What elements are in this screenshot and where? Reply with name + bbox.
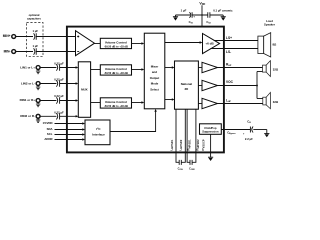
- wire CB to ground: [253, 129, 266, 131]
- svg-text:32Ω: 32Ω: [273, 100, 279, 104]
- op-amp mic preamp: [76, 31, 95, 56]
- svg-text:capacitors: capacitors: [27, 17, 41, 21]
- capacitor COSL: [178, 160, 183, 171]
- ground right of CS2: [221, 15, 226, 21]
- svg-text:National: National: [181, 82, 193, 86]
- svg-text:1 µF: 1 µF: [32, 29, 38, 33]
- svg-text:2.2 µF: 2.2 µF: [245, 137, 253, 141]
- wire National 3D to RHP amp: [198, 67, 202, 69]
- svg-text:+6 dB: +6 dB: [205, 42, 214, 46]
- svg-text:VOC: VOC: [226, 80, 234, 84]
- capacitor 0.22uF RIN2: [54, 111, 64, 120]
- capacitor CB: [243, 120, 253, 142]
- block Volume Control 2: [100, 65, 131, 75]
- wire MIN- to amp: [36, 51, 75, 53]
- svg-text:0.22 µF: 0.22 µF: [54, 94, 64, 98]
- wire National 3D to LHP amp: [198, 103, 202, 105]
- junction VOC branch: [256, 85, 258, 87]
- speaker HP left 32 ohm: [263, 92, 279, 108]
- capacitor 1uF upper optional: [32, 29, 38, 40]
- wire VC1 to mixer: [132, 43, 144, 45]
- svg-text:0.22 µF: 0.22 µF: [54, 62, 64, 66]
- wire RIN1 to MUX: [60, 100, 77, 102]
- wire mixer to National 3D lower: [165, 99, 174, 101]
- svg-text:I2CVDD: I2CVDD: [43, 121, 53, 125]
- wire MIN-: [16, 51, 33, 53]
- svg-text:LS+: LS+: [226, 36, 232, 40]
- ground under RIN1 pin: [36, 102, 40, 106]
- wire VOC branch vertical: [256, 72, 258, 99]
- wire VC3 to mixer: [132, 102, 144, 104]
- svg-text:and: and: [152, 70, 157, 74]
- node VDD: [176, 1, 224, 26]
- capacitor COSR: [189, 160, 195, 171]
- wire CBYPASS: [221, 129, 250, 131]
- svg-text:RIN1 or R+: RIN1 or R+: [20, 98, 36, 102]
- op-amp VOC: [202, 80, 218, 90]
- svg-text:+: +: [193, 15, 195, 19]
- block Volume Control 1: [100, 38, 131, 48]
- block Click/Pop Suppression: [200, 124, 222, 135]
- pin MIN+: [3, 34, 16, 38]
- svg-text:MIN+: MIN+: [3, 34, 11, 38]
- svg-text:Select: Select: [150, 88, 159, 92]
- svg-text:MIN-: MIN-: [4, 49, 11, 53]
- wire I2C to mixer: [110, 110, 156, 131]
- wire National 3D to VOC amp: [198, 85, 202, 87]
- svg-text:Output: Output: [150, 76, 160, 80]
- optional capacitors note: [27, 13, 44, 56]
- ground under LIN1 pin: [36, 69, 40, 73]
- svg-text:3D: 3D: [185, 87, 189, 91]
- svg-text:Mixer: Mixer: [151, 64, 159, 68]
- pin RIN2: [20, 114, 40, 118]
- svg-text:Speaker: Speaker: [264, 23, 276, 27]
- wire amp to VC1: [94, 43, 100, 45]
- wire ADDR: [55, 139, 84, 141]
- wire MUX to VC3: [91, 102, 101, 104]
- svg-text:-59.50 dB to +18 dB: -59.50 dB to +18 dB: [104, 71, 128, 75]
- svg-text:ADDR: ADDR: [44, 137, 52, 141]
- svg-text:1 µF: 1 µF: [181, 9, 187, 13]
- block Volume Control 3: [100, 98, 131, 108]
- wire LS-: [210, 48, 258, 50]
- Loud Speaker: [258, 19, 277, 57]
- pin LHPSD1: [176, 109, 179, 162]
- block MUX: [78, 62, 90, 118]
- wire LIN1: [40, 67, 56, 69]
- capacitor 0.22uF LIN1: [54, 62, 64, 71]
- svg-text:1 µF: 1 µF: [32, 44, 38, 48]
- block I2C Interface: [85, 120, 110, 145]
- wire VDD vertical: [201, 5, 203, 26]
- op-amp +6dB loudspeaker driver: [203, 34, 220, 54]
- wire RIN1: [40, 100, 56, 102]
- capacitor 1uF lower optional: [32, 44, 38, 55]
- wire MIN+: [16, 36, 33, 38]
- capacitor CS2: [206, 9, 233, 25]
- block National 3D: [175, 61, 199, 109]
- pin RHPSD2: [192, 109, 196, 162]
- op-amp LHP: [202, 98, 218, 108]
- wire MIN+ to amp: [36, 36, 75, 38]
- wire supply rail: [176, 14, 224, 16]
- capacitor 0.22uF LIN2: [54, 78, 64, 87]
- svg-text:RIN2 or R-: RIN2 or R-: [20, 114, 35, 118]
- svg-text:0.22 µF: 0.22 µF: [54, 78, 64, 82]
- pin LHPSD2: [181, 109, 185, 162]
- ground under LIN2 pin: [36, 85, 40, 89]
- op-amp RHP: [202, 62, 218, 72]
- wire RIN2 to MUX: [60, 115, 77, 117]
- svg-text:LIN1 or L+: LIN1 or L+: [20, 65, 35, 69]
- svg-text:-59.50 dB to +18 dB: -59.50 dB to +18 dB: [104, 104, 128, 108]
- pin RHPSD1: [187, 109, 190, 162]
- svg-text:Interface: Interface: [92, 132, 105, 136]
- IC outer box U1: [67, 27, 224, 153]
- wire RIN2: [40, 115, 56, 117]
- svg-text:0.22 µF: 0.22 µF: [54, 111, 64, 115]
- ground CB: [264, 130, 269, 138]
- svg-text:MUX: MUX: [81, 88, 87, 92]
- pin RIN1: [20, 98, 40, 103]
- wire LHP out: [218, 103, 263, 105]
- svg-text:Suppression: Suppression: [202, 130, 219, 134]
- pin LIN1: [20, 65, 40, 69]
- junction VDD rail: [201, 14, 203, 16]
- wire MUX to VC2: [91, 69, 101, 71]
- svg-text:SDA: SDA: [47, 127, 53, 131]
- wire LIN2: [40, 83, 56, 85]
- ground under RIN2 pin: [36, 118, 40, 122]
- wire mixer to +6dB amp: [165, 42, 201, 44]
- svg-text:Volume Control: Volume Control: [105, 100, 127, 104]
- svg-text:Volume Control: Volume Control: [105, 40, 127, 44]
- wire VC2 to mixer: [132, 69, 144, 71]
- ground left of CS1: [173, 15, 178, 21]
- svg-text:32Ω: 32Ω: [273, 68, 279, 72]
- wire SDA: [55, 129, 84, 131]
- wire LS+: [214, 40, 258, 42]
- wire SCL: [55, 134, 84, 136]
- wire VOC to HP right speaker: [257, 71, 263, 73]
- svg-text:LS-: LS-: [226, 50, 231, 54]
- svg-text:LIN2 or L-: LIN2 or L-: [21, 81, 35, 85]
- wire VOC to HP left speaker: [257, 98, 263, 100]
- capacitor 0.22uF RIN1: [54, 94, 64, 104]
- svg-text:-59.50 dB to +18 dB: -59.50 dB to +18 dB: [104, 45, 128, 49]
- pin LIN2: [21, 81, 40, 85]
- pin MIN-: [4, 49, 16, 53]
- wire I2CVDD: [55, 123, 84, 125]
- svg-text:Volume Control: Volume Control: [105, 67, 127, 71]
- block Mixer and Output Mode Select: [144, 33, 165, 109]
- svg-text:0.1 µF ceramic: 0.1 µF ceramic: [213, 9, 233, 13]
- capacitor CS1: [181, 9, 196, 25]
- wire RHP out: [218, 67, 263, 69]
- wire VOC out: [218, 85, 258, 87]
- svg-text:Click/Pop: Click/Pop: [204, 126, 217, 130]
- svg-text:SCL: SCL: [47, 132, 53, 136]
- speaker HP right 32 ohm: [263, 61, 279, 77]
- wire mixer to National 3D upper: [165, 67, 174, 69]
- svg-text:Mode: Mode: [151, 82, 159, 86]
- wire LIN1 to MUX: [60, 67, 77, 69]
- wire LIN2 to MUX: [60, 83, 77, 85]
- wire Click/Pop to ground: [210, 134, 212, 157]
- ground Click/Pop: [208, 157, 213, 161]
